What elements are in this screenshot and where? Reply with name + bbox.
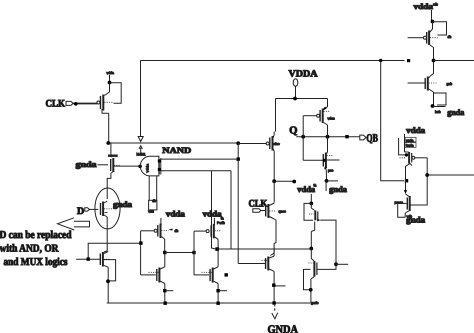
wire: X1 PMOS drain down to output square [164,239,166,253]
wire: up-U from M4 gate square to x=140.4 [88,243,141,257]
svg-text:pcs: pcs [328,169,334,173]
transistor M6a (PMOS of X2) [206,223,221,240]
wire: M11 bulk pin right (open end) [327,159,340,161]
wire: top-right gate stub lower [408,82,425,84]
wire: M15 bulk bracket left [398,203,406,217]
wire: CLK port to M1 gate (thick) [73,103,97,105]
ground GNDA dashed stem with arrowhead [274,304,276,313]
wire: M11 bulk stub right [327,180,339,182]
NAND output pad 2 [158,168,161,171]
wire: node B stub right to vdda-labeled node [274,180,294,182]
transistor M4 (NMOS bottom-left) [100,252,110,268]
wire: M9 source down to bottom rail [273,271,275,303]
wire: output to right edge y=60 [434,60,474,62]
svg-text:db: db [175,229,179,233]
node junction right end of stub [292,180,296,184]
node junction on M11 gate [323,159,326,162]
node junction: M1 source/bulk tie [108,81,112,85]
svg-text:vdcn: vdcn [328,117,335,121]
node square M9 on bottom rail [272,301,275,304]
wire: bottom CLK port to M8 gate [261,210,265,212]
wire: M4 bulk loop right [104,260,116,281]
transistor M7 (PMOS pass, clk net gate) [266,132,280,154]
node junction on CLK wire [74,102,78,106]
svg-text:gnb: gnb [447,82,453,86]
wire: NAND top output to x=237.7 (y=158.5) [161,158,238,160]
svg-text:gnda: gnda [76,160,97,169]
wire: M15 gate lead left [397,202,407,204]
wire: M4 source down to bottom rail [107,267,109,303]
svg-text:gnde: gnde [311,301,319,305]
node junction: long vertical tap at x=380 on top net [379,59,382,62]
node junction M11 foot [325,179,329,183]
wire: M1 drain down to node A [108,113,110,143]
wire: bottom rail y=302.5 [107,302,311,304]
wire: NAND top pin stub [140,149,142,156]
svg-text:vdda: vdda [107,71,114,75]
svg-text:Q: Q [289,125,297,136]
ellipse highlight around D transistor [95,188,120,229]
svg-text:vdda: vdda [166,210,186,219]
port symbol: VDDA ellipse [293,79,298,87]
wire: M11 drain up to output node [327,137,329,152]
node junction keeper top [309,202,313,206]
wire: keeper bulk loop left (M12) [304,203,313,220]
wire: keeper gate down-left to M13 gate [317,264,336,269]
transistor M9 (NMOS stacked) [262,256,275,271]
wire: bulk tie left of label boxes [399,138,405,155]
wire: keeper stack top stem under vdda label [310,194,312,204]
transistor M8 (NMOS, bottom CLK gate) [266,203,277,219]
svg-text:vdda: vdda [406,126,426,135]
wire: X1 PMOS source stub up under vdda [160,218,162,222]
wire: X2 NMOS gate lead [194,274,209,276]
wire: M15 source down to gnda [404,213,406,217]
arrowhead on M15 drain [404,190,408,193]
port symbol: CLK input pentagon [66,101,73,105]
node square mid-right inverter input [405,179,408,182]
wire: long vertical x=380.5 from top net to mid-right inverter [381,61,404,181]
wire: M16 drain down to output node [433,48,435,61]
wire: M1 bulk loop to source node [110,83,122,103]
port symbol: bottom CLK pentagon [253,209,261,213]
NAND output pad 1 [158,160,161,163]
node junction before QB port [345,135,348,138]
wire: vdda stem down x=431 [431,10,433,22]
wire: X2 PMOS gate lead [194,230,206,232]
wire: M2 right tap to NAND B input [114,165,140,167]
wire: X2 PMOS source stub up [213,218,215,223]
transistor M11 (NMOS of output latch) [323,152,332,170]
svg-text:tmda: tmda [406,144,414,148]
annotation hollow arrow pointing to ellipse text [58,218,90,230]
wire: gnda stub right [433,106,446,108]
svg-text:rdb: rdb [433,3,438,7]
node junction mid-right output [425,173,429,177]
node square X2 input on vertical [192,251,195,254]
wire: X1 PMOS gate lead [141,230,155,232]
wire: vertical x=211 from NAND bottom net down to keeper net [212,171,216,249]
wire: X2 NMOS source down to rail [217,284,219,304]
svg-text:D can be replaced: D can be replaced [0,230,72,241]
svg-text:and MUX logics: and MUX logics [4,257,68,268]
node square X2 on bottom rail [216,302,219,305]
transistor M15 (NMOS mid-right) [405,194,410,213]
transistor M5a (PMOS of X1) [154,222,172,239]
svg-text:vdda: vdda [414,2,434,11]
transistor M16 (PMOS top-right) [424,22,438,48]
svg-text:Pvdb: Pvdb [217,221,225,225]
transistor M5b (NMOS of X1) [149,267,165,284]
wire: vertical x=230.5 from NAND bottom net down to keeper net [230,171,232,249]
wire: M13 source down to rail end [310,279,312,303]
wire: latch PMOS gate lead [303,115,316,117]
wire: output down to M17 drain [430,61,433,77]
node A junction (drain of M1 / NAND clk net) [106,141,110,145]
wire: X2 NMOS drain up to output [217,249,219,267]
wire: vdda stem to M1 source [109,75,111,83]
wire: M17 bulk loop right [434,93,447,105]
svg-text:GNDA: GNDA [268,324,299,333]
wire: M10 drain down to output node [327,125,329,137]
wire: M3 drain down to M4 [104,217,107,252]
svg-text:voda: voda [406,138,413,142]
wire: M11 foot down to gnda label [325,181,327,191]
svg-text:qnce: qnce [279,209,286,213]
node junction M13 foot [309,288,313,292]
svg-text:bnb: bnb [435,110,441,114]
tiny label voda box (mid-right) [405,137,416,142]
wire: M9 bulk stub right [275,285,285,287]
transistor M3 (NMOS inside ellipse, D input) [101,201,113,217]
wire: NAND bottom output to x=230.5 (y=170.2) [161,170,231,172]
node junction M4 source/bulk [106,279,110,283]
wire: M11 source down to gnda node [325,170,327,181]
NAND pin triangle marker above gate [139,146,142,149]
svg-text:vdce: vdce [273,142,280,146]
wire: keeper mid vertical to input net [310,232,312,250]
svg-text:vdda: vdda [203,210,223,219]
node junction keeper gate tee [334,262,338,266]
node square M9 source bulk tie [272,284,275,287]
node square X1 on bottom rail [164,302,167,305]
wire: node B down to M8 [273,181,275,202]
node junction at NAND B input [138,165,142,169]
wire: M9 drain rise to keeper net [273,249,275,256]
wire: extension of clk net to M7 gate y=143 [238,143,266,145]
decap cell below NAND with tiny labels [148,199,157,213]
tiny label tmda box (mid-right) [405,143,416,148]
wire: latch cross vertical x=302.7 [302,116,304,161]
wire: X2 PMOS drain down to output square [217,239,219,249]
node square X2 output [215,247,219,251]
node junction latch output [326,135,330,139]
node junction keeper input [309,247,313,251]
wire: M2 top bar up to node A [110,143,112,156]
wire: vertical from top net down to NAND input arrow, x=140 [140,61,142,137]
wire: NAND bottom pin 1 down to decap [148,176,150,200]
svg-text:vdda: vdda [146,164,150,173]
transistor M14 (PMOS mid-right, gate on right) [399,152,415,166]
port symbol: D input pentagon [85,208,90,211]
svg-text:vdd: vdd [148,209,154,213]
transistor M2 (NMOS below node A) [108,156,121,173]
node square X1 source bulk tie [163,289,166,292]
wire: M8 source down to M9 drain [270,219,276,256]
node square on M4 gate wire [87,257,90,260]
wire: M10 source up to vdda rail corner [326,99,327,108]
svg-text:with AND, OR: with AND, OR [0,243,59,254]
node square where up-U joins X1 input [139,241,142,244]
wire: M14 drain down to M15 drain [406,164,410,194]
wire: D port to M3 gate [89,208,98,210]
svg-text:gnda: gnda [329,185,348,194]
wire: X1 NMOS drain up to output [164,253,166,267]
wire: rail drop to M7 source [275,99,277,132]
node square X2 source bulk tie [216,289,219,292]
gate U1: NAND body (arc on left, flat right) [140,156,161,176]
svg-text:gnda: gnda [113,200,132,209]
wire: X2 bulk stub right [219,290,228,292]
node square on x=237.7 vertical where NAND top output joins [237,157,240,160]
port symbol QB pentagon [360,135,366,140]
node square X2 right pad [225,273,228,276]
wire: X1 output link to X2 input, y=252 [165,252,194,254]
wire: M7 drain down to node B [273,154,275,182]
wire: M2 drain down, jog left into ellipse transistor M3 [107,173,111,199]
transistor M12 (keeper top, gate on right) [309,204,320,232]
node junction M17 foot [431,104,435,108]
svg-text:db: db [152,199,156,203]
wire: M9 gate lead from x=237.7 vertical [238,263,265,265]
node square: right end of top net at gate column x=408 [407,59,410,62]
node junction M16 source [431,20,435,24]
node junction top-right output [432,59,436,63]
node B junction [272,179,276,183]
wire: VDDA stem to rail [295,86,297,98]
transistor M17 (NMOS top-right) [425,76,436,92]
node junction M14 source [405,153,408,156]
wire: latch NMOS gate lead [303,159,322,161]
wire: M13 bulk bracket left [304,269,311,289]
wire: vdda rail y=98 [276,98,328,100]
wire: M4 gate net from left with up-U to inverter input [76,258,100,260]
NAND input arrowhead (open, pointing down) [138,137,143,142]
wire: M12 gate lead right then down [320,220,336,264]
node square X1 output (pmos side) [163,251,166,254]
svg-text:NAND: NAND [162,146,191,155]
wire: X1 NMOS gate lead from vertical [141,274,156,276]
wire: vdda stem down x=404 [404,134,406,152]
node junction VDDA on rail [293,97,297,101]
svg-text:QB: QB [366,133,378,145]
wire: keeper gate stub right (open) [336,263,348,265]
node junction on Q vertical [301,135,305,139]
svg-text:db: db [448,35,452,39]
wire: top-right gate stub upper [408,37,424,39]
wire: M14 gate lead right to output vertical [415,157,427,159]
svg-text:CLK: CLK [46,99,66,110]
node junction at (237.7,142.5) [236,141,240,145]
wire: latch mid rail y=136.2 (Q to QB port) [296,136,360,138]
wire: top horizontal net from NAND input arrow to right inverter, y=60 [141,60,405,62]
transistor M1 (PMOS, CLK clock buffer) [97,83,113,114]
wire: gnda label to M2 gate [98,164,109,166]
wire: keeper input net y=248.5 from X2 output to keeper stack [217,248,311,250]
wire: mid-right output to right edge y=174.5 [427,174,474,176]
svg-text:VDDA: VDDA [289,70,318,80]
wire: node A horizontal to x=237.7, y=142.5 [108,142,238,144]
transistor M10 (PMOS of output latch) [317,107,331,126]
wire: mid-right output vertical x=426.7 [411,158,428,205]
wire: X1 NMOS source down to rail [164,284,166,304]
wire: X1 bulk stub right [165,290,173,292]
transistor M13 (keeper bottom, gate on right) [309,249,317,280]
svg-text:gnda: gnda [406,216,426,225]
wire: vertical x=237.7 from clk net down to M9 gate level [237,143,239,264]
svg-text:CLK: CLK [249,199,268,210]
svg-text:D: D [77,206,84,217]
wire: X2 input vertical x=193.5 [193,231,195,275]
svg-text:gnda: gnda [447,108,464,117]
wire: NAND bottom pin 2 down to decap [156,176,158,200]
transistor M6b (NMOS of X2) [202,267,219,284]
svg-text:th: th [314,184,317,188]
wire: M16 bulk loop right [433,22,447,35]
wire: X1 input vertical x=140.1 [140,231,142,275]
wire: M17 source down to gnda node [433,92,435,106]
svg-text:th: th [221,217,224,221]
